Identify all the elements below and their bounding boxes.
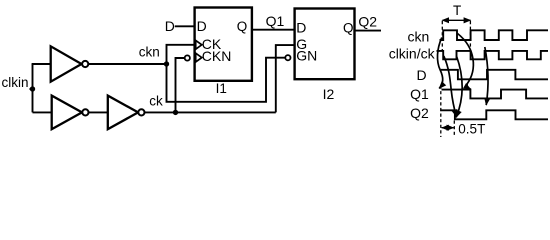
svg-text:clkin/ck: clkin/ck bbox=[389, 46, 436, 62]
waveform Q1 bbox=[442, 90, 549, 99]
causal arrow ck fall to Q2 rise bbox=[485, 47, 488, 105]
wire U2 to U3 bbox=[89, 111, 109, 113]
inverter U2 bbox=[52, 96, 82, 130]
junction ck bbox=[173, 110, 178, 115]
wire to inverter U2 input bbox=[33, 111, 53, 113]
wire D input to I1 bbox=[175, 25, 195, 27]
wire ck to G pin of I2 bbox=[276, 45, 295, 112]
svg-text:GN: GN bbox=[296, 48, 317, 64]
wire Q1 from I1 to I2 bbox=[252, 29, 295, 31]
svg-text:I2: I2 bbox=[323, 86, 335, 102]
svg-text:D: D bbox=[416, 67, 426, 83]
svg-text:Q1: Q1 bbox=[266, 13, 285, 29]
wire ckn bbox=[88, 63, 167, 65]
svg-text:D: D bbox=[197, 18, 207, 34]
dashed marker line T right bbox=[469, 21, 471, 50]
junction clkin bbox=[30, 86, 35, 91]
waveform ckn bbox=[440, 30, 549, 40]
svg-text:Q2: Q2 bbox=[410, 105, 429, 121]
wire Q2 output bbox=[354, 30, 381, 32]
svg-text:ckn: ckn bbox=[139, 45, 160, 60]
svg-text:Q2: Q2 bbox=[358, 14, 377, 30]
causal arrow ck fall to Q2 fall bbox=[444, 56, 457, 117]
dashed marker line 0.5T right bbox=[453, 121, 455, 138]
inverter U1 output bubble bbox=[82, 61, 88, 67]
wire ck bbox=[145, 111, 276, 113]
pin bubble GN of I2 bbox=[285, 55, 290, 60]
pin triangle CKN of I1 bbox=[196, 53, 202, 62]
svg-text:I1: I1 bbox=[216, 81, 227, 96]
junction ckn bbox=[164, 61, 169, 66]
svg-text:ckn: ckn bbox=[408, 29, 430, 45]
svg-text:Q: Q bbox=[237, 19, 248, 34]
waveform clkin/ck bbox=[437, 51, 549, 59]
wire ckn to CK pin of I1 bbox=[167, 45, 196, 64]
dashed marker line T left bbox=[441, 21, 443, 50]
svg-text:ck: ck bbox=[149, 94, 163, 109]
waveform Q2 bbox=[440, 110, 548, 119]
wire ckn down branch to GN of I2 bbox=[167, 58, 285, 102]
svg-text:D: D bbox=[296, 20, 306, 36]
inverter U3 bbox=[108, 96, 138, 130]
inverter U1 bbox=[51, 46, 82, 81]
wire clkin stub bbox=[30, 88, 34, 90]
pin triangle CK of I1 bbox=[196, 40, 202, 49]
inverter U2 output bubble bbox=[82, 109, 88, 115]
svg-text:0.5T: 0.5T bbox=[458, 121, 485, 136]
svg-text:clkin: clkin bbox=[2, 75, 29, 90]
dimension arrow T left head bbox=[441, 17, 449, 23]
causal arrow ckn fall to Q1 fall bbox=[458, 34, 474, 90]
inverter U3 output bubble bbox=[138, 109, 144, 115]
dimension arrow 0.5T bbox=[442, 127, 454, 129]
wire to inverter U1 input bbox=[32, 63, 51, 65]
latch I2 box bbox=[295, 9, 355, 80]
svg-text:D: D bbox=[165, 18, 175, 34]
waveform D bbox=[441, 70, 548, 80]
wire ck to CKN pin of I1 bbox=[176, 58, 185, 112]
svg-text:Q: Q bbox=[343, 20, 354, 35]
wire clkin vertical trunk bbox=[32, 64, 34, 112]
dimension arrow 0.5T left head bbox=[441, 125, 449, 131]
causal arrow ck rise to Q2 fall bbox=[456, 56, 462, 117]
svg-text:CKN: CKN bbox=[202, 48, 232, 64]
dashed marker line 0.5T left bbox=[440, 86, 442, 138]
svg-text:T: T bbox=[453, 3, 461, 18]
causal arrow ckn rise to Q1 start bbox=[437, 38, 442, 89]
svg-text:Q1: Q1 bbox=[410, 86, 429, 102]
pin bubble CKN of I1 bbox=[185, 55, 190, 60]
flip-flop I1 box bbox=[195, 8, 252, 81]
dimension arrow T bbox=[443, 19, 471, 21]
